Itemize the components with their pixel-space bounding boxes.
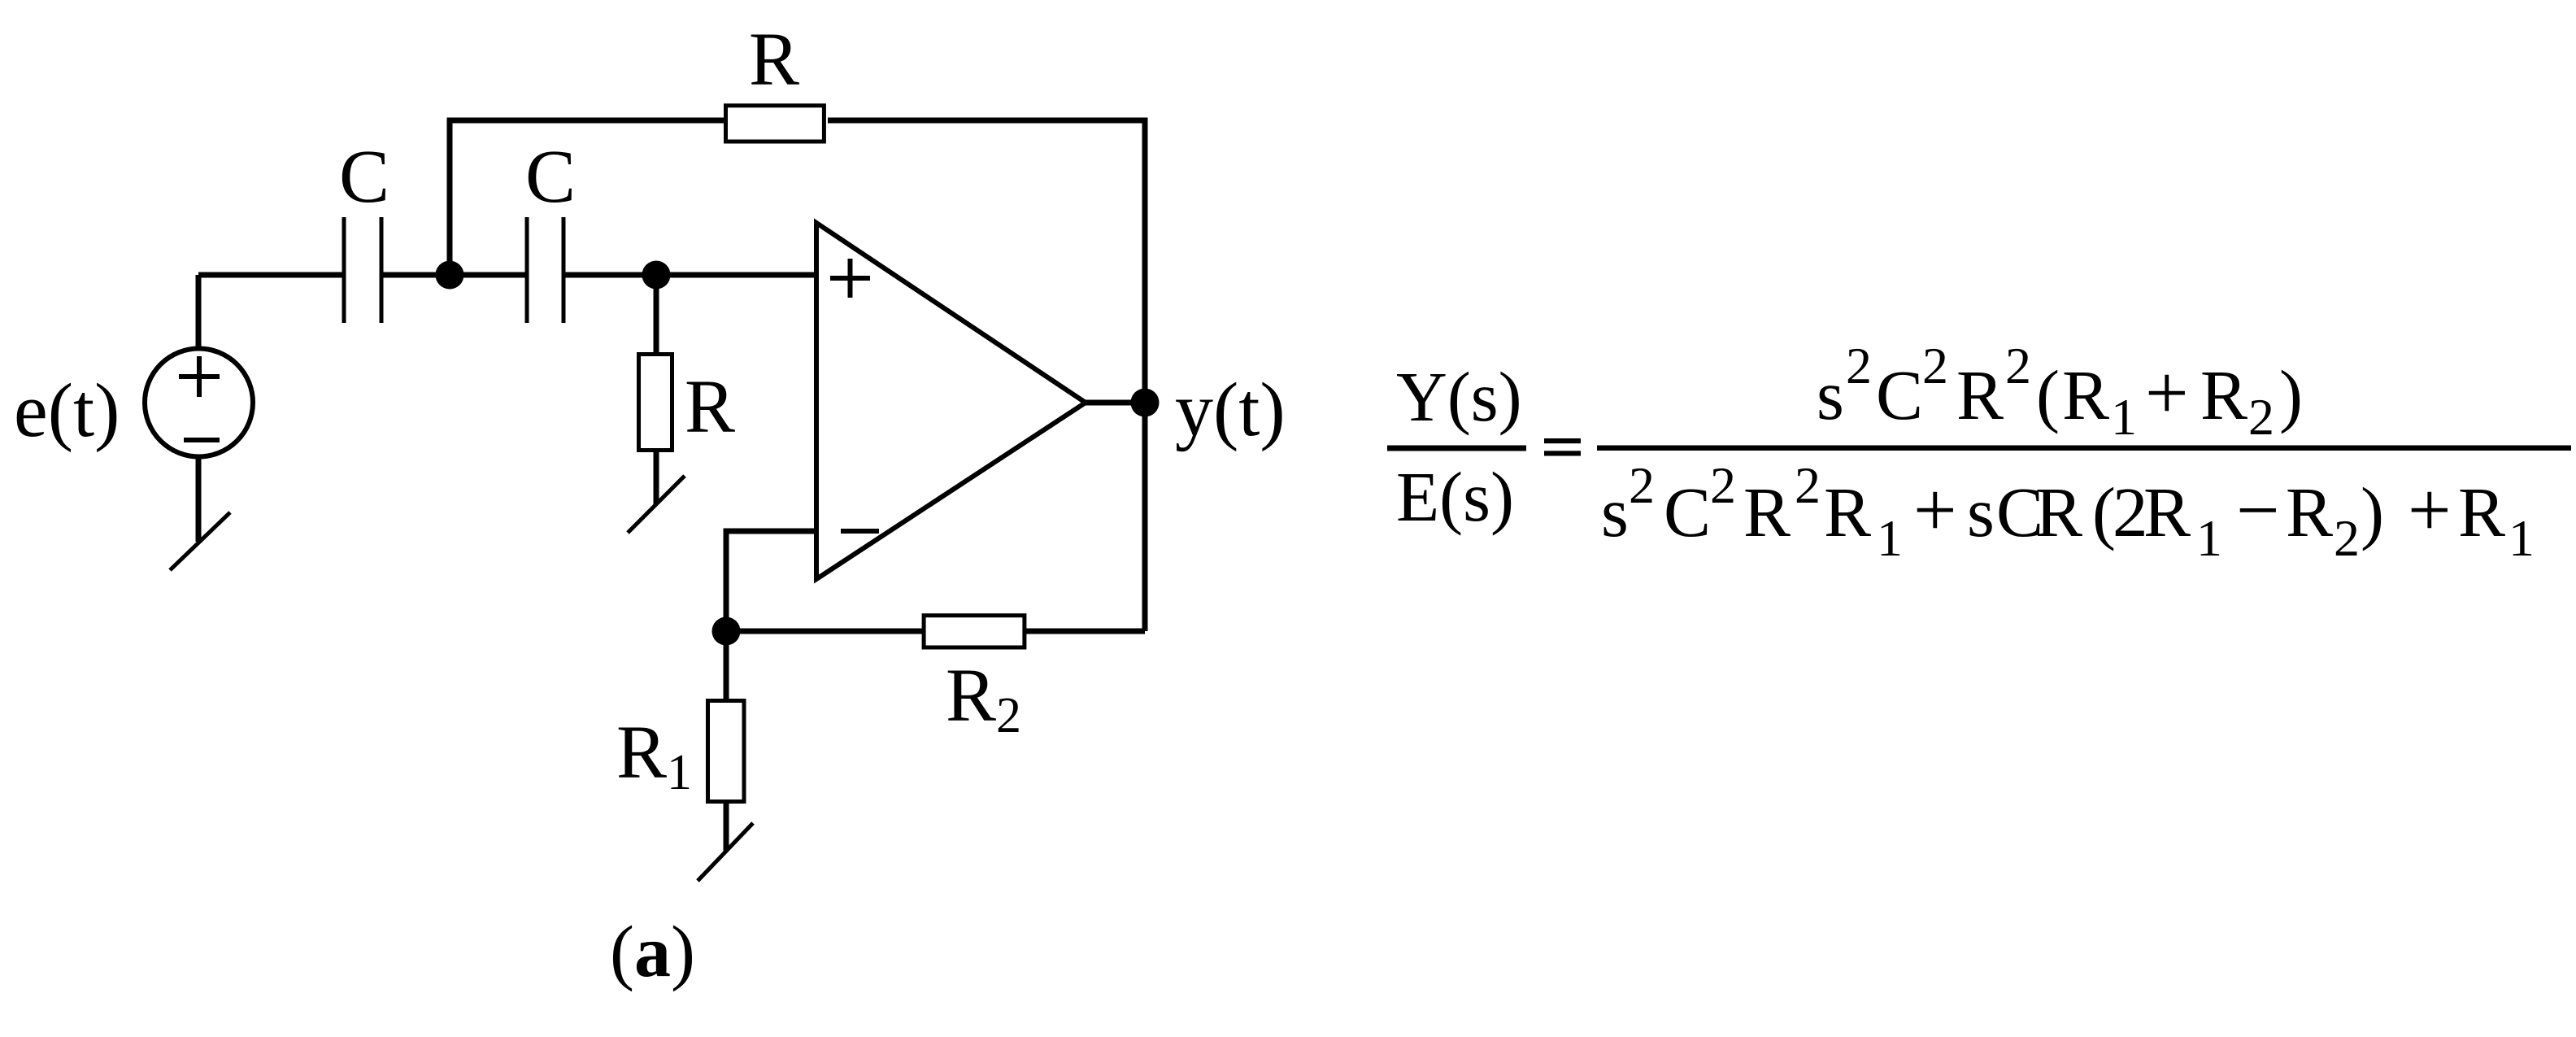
svg-text:s2C2R2R1+sCR(2R1−R2)+R1: s2C2R2R1+sCR(2R1−R2)+R1: [1601, 456, 2535, 567]
svg-text:R2: R2: [946, 654, 1021, 743]
svg-text:C: C: [339, 135, 389, 219]
svg-text:E(s): E(s): [1396, 457, 1514, 536]
svg-text:C: C: [525, 135, 576, 219]
svg-text:Y(s): Y(s): [1396, 357, 1522, 436]
svg-text:(a): (a): [610, 912, 695, 992]
svg-text:s2C2R2(R1+R2): s2C2R2(R1+R2): [1817, 337, 2303, 446]
svg-text:R: R: [749, 18, 799, 102]
svg-text:R: R: [685, 365, 735, 449]
svg-text:R1: R1: [616, 711, 692, 800]
svg-text:y(t): y(t): [1175, 368, 1286, 452]
svg-text:e(t): e(t): [14, 368, 120, 453]
